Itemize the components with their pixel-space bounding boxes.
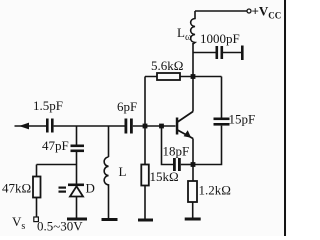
border right edge: [284, 0, 286, 236]
node dot base-5.6k-15k: [143, 124, 148, 129]
svg-text:1.2kΩ: 1.2kΩ: [199, 183, 231, 198]
wire 47pF branch down: [76, 126, 78, 145]
wire 1.2k to ground: [192, 202, 194, 218]
wire base segment: [133, 125, 176, 127]
wire 47pF to diode: [76, 152, 78, 184]
wire diode to ground: [76, 197, 78, 218]
varactor cap bars: [59, 187, 67, 189]
wire 15k to ground: [144, 186, 146, 219]
transistor base bar: [176, 118, 179, 135]
node dot emitter junction: [191, 162, 196, 167]
ground under diode: [67, 218, 87, 221]
inductor L-rfc coil: [191, 11, 195, 44]
svg-text:L: L: [119, 164, 127, 179]
wire 18pF branch: [162, 126, 174, 165]
ground under 1.2k: [185, 218, 201, 221]
wire L branch down: [108, 126, 110, 157]
wire emitter vertical: [192, 139, 194, 182]
transistor collector lead: [178, 112, 194, 123]
wire 5.6k row: [145, 76, 222, 78]
node dot base-18pF: [159, 124, 164, 129]
ground under 15k: [138, 219, 153, 222]
svg-text:D: D: [86, 181, 95, 196]
wire input left segment: [15, 125, 47, 127]
arrow output: [19, 123, 29, 130]
svg-text:15pF: 15pF: [229, 112, 256, 127]
wire 5.6k left leg down: [144, 77, 146, 127]
resistor R 15k: [141, 165, 149, 186]
svg-text:18pF: 18pF: [163, 144, 190, 159]
wire 47k top leg: [36, 165, 38, 177]
wire top rail VCC: [195, 10, 247, 12]
transistor emitter arrow: [184, 130, 192, 138]
wire 47k bottom leg: [36, 198, 38, 218]
wire L to ground: [108, 185, 110, 218]
node dot collector-5.6k: [191, 74, 196, 79]
resistor R 47k: [33, 177, 41, 198]
svg-text:6pF: 6pF: [117, 99, 137, 114]
svg-text:47pF: 47pF: [42, 138, 69, 153]
capacitor 18pF: [173, 158, 176, 171]
svg-text:1000pF: 1000pF: [200, 31, 240, 46]
capacitor 47pF: [71, 145, 85, 148]
wire 15pF bottom: [193, 126, 222, 165]
svg-text:0.5~30V: 0.5~30V: [37, 219, 83, 234]
terminal Vs square: [34, 217, 39, 222]
wire 47k branch horizontal: [37, 164, 77, 166]
capacitor 15pF: [214, 118, 230, 121]
capacitor 1.5pF: [46, 119, 49, 133]
svg-text:15kΩ: 15kΩ: [150, 169, 179, 184]
ground under L: [102, 218, 118, 221]
resistor R 1.2k: [188, 181, 197, 202]
wire 15pF top: [221, 77, 223, 118]
transistor emitter lead: [178, 130, 194, 139]
capacitor 6pF: [125, 119, 128, 134]
wire 1000pF right: [223, 52, 241, 54]
terminal bar right of 1000pF: [241, 46, 244, 61]
wire collector vertical: [192, 43, 194, 112]
wire 15k branch down: [144, 126, 146, 165]
svg-text:47kΩ: 47kΩ: [2, 181, 31, 196]
wire main between 1.5pF and 6pF: [54, 125, 125, 127]
inductor L coil: [104, 157, 108, 185]
capacitor 1000pF: [216, 46, 219, 59]
resistor R 5.6k: [157, 73, 180, 80]
wire 1000pF branch: [193, 52, 216, 54]
svg-text:5.6kΩ: 5.6kΩ: [151, 58, 183, 73]
terminal +Vcc: [247, 9, 251, 13]
diode D varactor: [68, 184, 84, 187]
svg-text:1.5pF: 1.5pF: [33, 98, 63, 113]
wire 18pF to emitter: [181, 164, 193, 166]
